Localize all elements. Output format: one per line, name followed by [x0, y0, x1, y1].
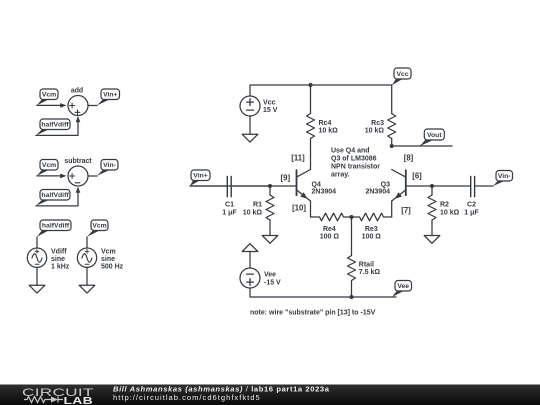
svg-text:[10]: [10] [292, 204, 306, 213]
svg-text:[7]: [7] [401, 206, 411, 215]
svg-text:subtract: subtract [64, 158, 92, 165]
svg-text:LAB: LAB [64, 394, 93, 405]
svg-text:[11]: [11] [291, 153, 305, 162]
svg-text:[8]: [8] [404, 153, 414, 162]
svg-text:Re3: Re3 [365, 226, 378, 233]
svg-text:Vcm: Vcm [101, 249, 116, 256]
svg-text:[9]: [9] [281, 173, 291, 182]
svg-text:10 kΩ: 10 kΩ [365, 128, 385, 135]
svg-text:100 Ω: 100 Ω [320, 234, 340, 241]
svg-text:Q3: Q3 [381, 182, 390, 189]
svg-text:Vin-: Vin- [103, 162, 116, 169]
svg-text:Rtail: Rtail [359, 261, 374, 268]
svg-text:NPN transistor: NPN transistor [331, 164, 380, 171]
svg-text:Vin+: Vin+ [193, 173, 207, 180]
svg-text:Vcc: Vcc [396, 71, 408, 78]
svg-text:10 kΩ: 10 kΩ [319, 128, 339, 135]
svg-text:1 kHz: 1 kHz [51, 264, 70, 271]
svg-text:Vcm: Vcm [92, 223, 106, 230]
svg-text:R2: R2 [440, 201, 449, 208]
svg-text:2N3904: 2N3904 [312, 189, 337, 196]
svg-text:add: add [71, 87, 83, 94]
svg-text:10 kΩ: 10 kΩ [440, 209, 460, 216]
svg-text:Vdiff: Vdiff [51, 249, 67, 256]
svg-text:2N3904: 2N3904 [365, 189, 390, 196]
svg-text:500 Hz: 500 Hz [101, 264, 124, 271]
svg-text:Vcc: Vcc [263, 99, 276, 106]
svg-text:halfVdiff: halfVdiff [42, 223, 70, 230]
svg-text:1 μF: 1 μF [222, 209, 237, 216]
svg-text:note: wire "substrate" pin [13: note: wire "substrate" pin [13] to -15V [250, 309, 376, 316]
svg-text:C2: C2 [467, 201, 476, 208]
svg-text:Rc3: Rc3 [371, 120, 384, 127]
svg-text:array.: array. [331, 172, 350, 179]
svg-text:sine: sine [51, 256, 65, 263]
svg-text:C1: C1 [225, 201, 234, 208]
svg-text:100 Ω: 100 Ω [362, 234, 382, 241]
svg-text:Q4: Q4 [312, 182, 321, 189]
svg-text:Rc4: Rc4 [319, 120, 332, 127]
svg-text:Vin+: Vin+ [103, 92, 117, 99]
svg-text:Use Q4 and: Use Q4 and [331, 148, 370, 155]
svg-text:15 V: 15 V [263, 107, 278, 114]
svg-text:Q3 of LM3086: Q3 of LM3086 [331, 156, 377, 163]
svg-text:10 kΩ: 10 kΩ [243, 209, 263, 216]
svg-text:Vee: Vee [264, 272, 276, 279]
svg-text:Vin-: Vin- [498, 173, 511, 180]
svg-text:Vcm: Vcm [42, 162, 56, 169]
svg-text:halfVdiff: halfVdiff [41, 122, 69, 129]
svg-text:-15 V: -15 V [264, 279, 281, 286]
svg-text:[6]: [6] [412, 172, 422, 181]
svg-text:Vcm: Vcm [42, 92, 56, 99]
svg-text:halfVdiff: halfVdiff [41, 192, 69, 199]
svg-text:R1: R1 [253, 201, 262, 208]
svg-text:http://circuitlab.com/cd6tghfx: http://circuitlab.com/cd6tghfxfktd5 [113, 393, 261, 402]
svg-text:sine: sine [101, 256, 115, 263]
svg-text:Re4: Re4 [323, 226, 336, 233]
svg-text:7.5 kΩ: 7.5 kΩ [359, 269, 381, 276]
svg-text:Vee: Vee [397, 283, 409, 290]
svg-text:1 μF: 1 μF [464, 209, 479, 216]
svg-text:Vout: Vout [427, 132, 442, 139]
